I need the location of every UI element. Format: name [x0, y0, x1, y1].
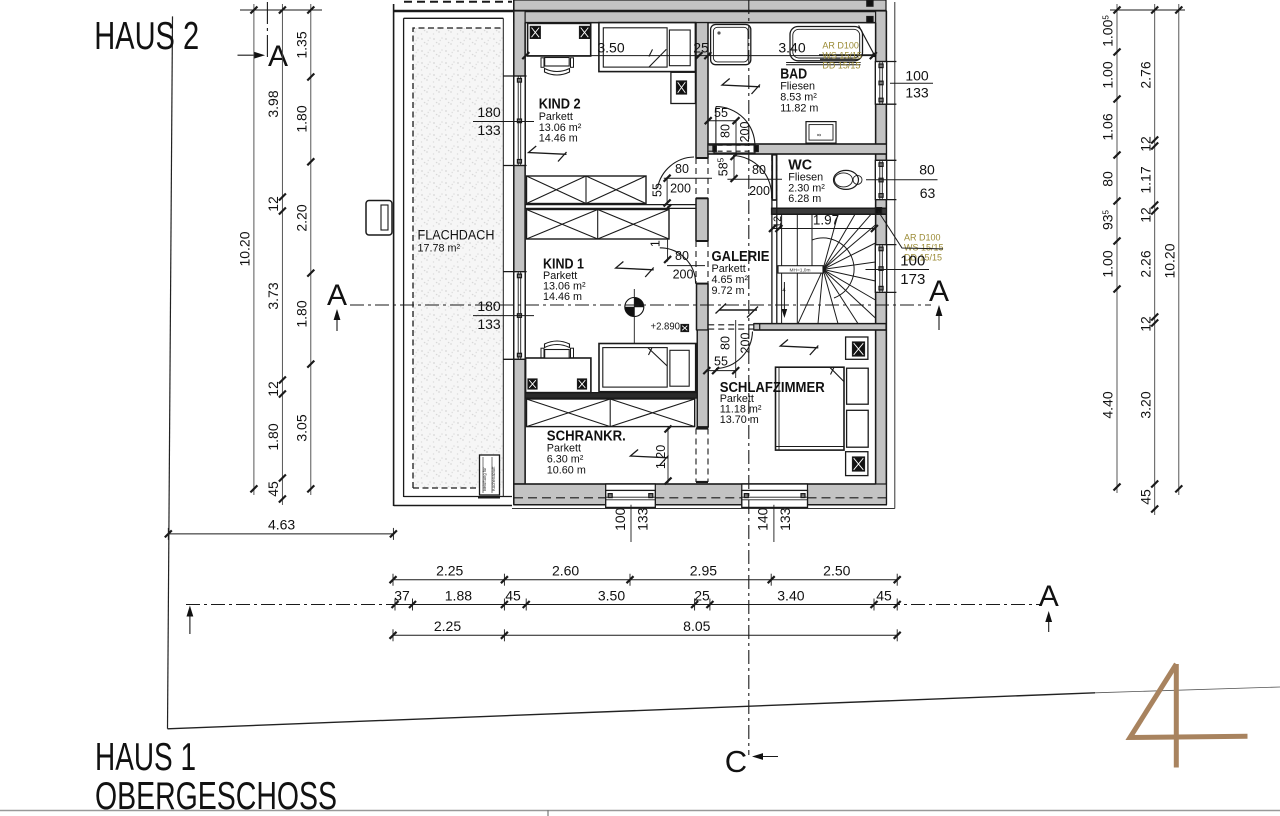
svg-text:180: 180 [477, 298, 501, 314]
svg-text:3.50: 3.50 [598, 587, 625, 603]
svg-text:HAUS 1: HAUS 1 [95, 736, 196, 779]
top crop edge lines [404, 1, 512, 3]
bed KIND2 [599, 23, 696, 72]
svg-text:45: 45 [876, 587, 892, 603]
bottom dim row 2 on section line [393, 604, 897, 606]
svg-text:3.40: 3.40 [777, 587, 804, 603]
svg-text:10.60 m: 10.60 m [547, 464, 586, 476]
window label 140/133 bottom [773, 505, 775, 542]
svg-text:80: 80 [1100, 171, 1116, 187]
cabinet SCHLAFZIMMER 1 [847, 368, 869, 404]
svg-text:14.46 m: 14.46 m [543, 291, 582, 303]
bottom dim row 1 [393, 579, 897, 581]
door arc KIND1 [660, 248, 696, 284]
open arrow KIND2 [529, 146, 567, 154]
svg-text:Parkett: Parkett [539, 111, 573, 123]
nightstand bottom SCHLAFZIMMER [846, 452, 868, 476]
svg-text:12: 12 [1137, 207, 1153, 223]
svg-text:Küchenabluft: Küchenabluft [491, 466, 496, 491]
wardrobe SCHRANKR [527, 399, 695, 427]
survey point circle [625, 298, 644, 317]
window WC 80/63 right wall [875, 160, 886, 199]
svg-text:8.05: 8.05 [683, 618, 710, 634]
bottom frame line [0, 810, 1280, 812]
window SCHRANKR 100/133 bottom wall [606, 484, 656, 505]
svg-text:133: 133 [477, 122, 501, 138]
svg-text:2.26: 2.26 [1137, 250, 1153, 277]
svg-text:12: 12 [772, 216, 784, 228]
logo numeral 4 [1130, 664, 1248, 738]
svg-text:3.50: 3.50 [597, 40, 624, 56]
svg-text:200: 200 [739, 333, 753, 354]
junction squares [867, 0, 873, 6]
svg-text:133: 133 [635, 507, 651, 531]
KIND1 door opening dashed jambs [695, 241, 697, 284]
svg-text:9.72 m: 9.72 m [712, 285, 745, 297]
right exterior wall [876, 11, 887, 505]
svg-text:12: 12 [1137, 136, 1153, 152]
nightstand top SCHLAFZIMMER [846, 337, 868, 359]
svg-text:45: 45 [1137, 489, 1153, 505]
svg-text:2.25: 2.25 [436, 563, 463, 579]
dim 4.63 [168, 533, 393, 535]
roof eave outline [894, 2, 896, 509]
terrain diagonal line [168, 693, 1096, 729]
svg-text:1.80: 1.80 [293, 300, 309, 327]
window KIND2 180/133 left wall [514, 76, 525, 166]
svg-text:A: A [268, 40, 288, 73]
svg-text:2.76: 2.76 [1137, 61, 1153, 88]
svg-text:55: 55 [714, 355, 728, 369]
svg-text:MH=1,0m: MH=1,0m [790, 268, 811, 274]
lower section line A [186, 604, 1040, 606]
window stair 100/173 right wall [875, 245, 886, 293]
galerie stair divider wall [771, 154, 773, 324]
svg-text:200: 200 [749, 184, 770, 198]
right chain 1 [1116, 4, 1118, 493]
flachdach outer edge lines [393, 4, 395, 506]
toilet WC [834, 170, 859, 189]
svg-text:2.20: 2.20 [293, 204, 309, 231]
section line C vertical [748, 0, 750, 755]
svg-text:A: A [1039, 580, 1059, 613]
window KIND1 180/133 left wall [514, 272, 525, 360]
svg-text:80: 80 [675, 162, 689, 176]
door dim KIND2 [664, 177, 712, 179]
svg-text:45: 45 [505, 587, 521, 603]
svg-text:45: 45 [265, 481, 281, 497]
stair winder treads fan [823, 214, 838, 269]
door arc KIND2 [658, 157, 695, 188]
left chain segments [281, 4, 283, 505]
SCHLAFZIMMER door opening dashed [708, 324, 754, 326]
svg-text:AR D100: AR D100 [904, 233, 941, 243]
wardrobe row KIND2 [527, 176, 647, 204]
svg-text:133: 133 [477, 316, 501, 332]
window label 100/133 bottom [630, 505, 632, 542]
svg-text:HAUS 2: HAUS 2 [94, 15, 199, 58]
door arc SCHLAFZIMMER [716, 332, 753, 369]
ventilation box bottom left [480, 455, 500, 495]
svg-text:55: 55 [714, 106, 728, 120]
corridor wall below KIND1 door [697, 284, 709, 330]
property boundary vertical [168, 16, 173, 728]
flachdach dashed inner boundary [413, 28, 503, 488]
svg-text:A: A [327, 279, 347, 312]
svg-text:8: 8 [817, 133, 823, 136]
KIND2 door opening dashed jambs [695, 158, 697, 198]
corridor wall between doors [696, 198, 708, 241]
bottom exterior wall [514, 484, 887, 505]
window SCHLAFZIMMER 140/133 bottom wall [742, 484, 808, 505]
svg-text:1.00: 1.00 [1100, 61, 1116, 88]
bottom wall hidden dashed line [514, 497, 606, 499]
stair dim 1.97 [772, 228, 876, 230]
svg-text:WS 15/15: WS 15/15 [904, 243, 944, 253]
svg-text:1.35: 1.35 [293, 31, 309, 58]
SCHLAFZIMMER left wall [697, 330, 708, 427]
svg-text:63: 63 [920, 185, 936, 201]
svg-text:173: 173 [900, 271, 925, 288]
svg-text:13.70 m: 13.70 m [720, 414, 759, 426]
svg-text:80: 80 [719, 336, 733, 350]
wall protrusion left [366, 201, 392, 236]
svg-text:4.40: 4.40 [1100, 391, 1116, 418]
stair direction arrow [783, 282, 785, 314]
shower diagonal and dot [859, 26, 875, 55]
chair KIND1 [545, 350, 570, 359]
svg-text:100: 100 [900, 252, 925, 269]
svg-text:FLACHDACH: FLACHDACH [418, 228, 495, 243]
svg-text:25: 25 [693, 40, 709, 56]
svg-text:2.25: 2.25 [434, 618, 461, 634]
svg-text:1.20: 1.20 [654, 445, 668, 469]
corridor wall top segment [696, 23, 708, 158]
chair KIND2 [545, 58, 570, 67]
svg-text:25: 25 [694, 587, 710, 603]
interior dim line top [526, 55, 874, 57]
nightstand KIND2 [671, 72, 696, 103]
svg-text:1.80: 1.80 [293, 105, 309, 132]
svg-text:10.20: 10.20 [1161, 243, 1177, 278]
svg-text:3.98: 3.98 [265, 90, 281, 117]
door dim SCHLAFZIMMER [707, 370, 736, 372]
wardrobe row KIND1 [527, 210, 670, 240]
svg-text:3.05: 3.05 [293, 414, 309, 441]
svg-text:12: 12 [265, 381, 281, 397]
window BAD 100/133 right wall [875, 62, 886, 105]
stair walk line arc [812, 238, 854, 298]
section line A-A horizontal [350, 304, 931, 306]
right chain 2 [1154, 4, 1156, 515]
BAD bottom wall [708, 144, 886, 154]
svg-text:55: 55 [651, 183, 665, 197]
svg-text:3.73: 3.73 [265, 282, 281, 309]
bathtub BAD left [711, 25, 751, 65]
open arrow KIND1 [616, 262, 654, 270]
door dim BAD [708, 120, 736, 122]
door BAD leaf and arc [715, 107, 717, 146]
SCHRANKR opening to SCHLAFZIMMER dashed [696, 427, 708, 429]
svg-text:37: 37 [394, 587, 410, 603]
svg-text:1.88: 1.88 [445, 587, 472, 603]
stair MH box [778, 266, 823, 273]
svg-text:1.97: 1.97 [813, 213, 839, 228]
svg-text:3.20: 3.20 [1137, 391, 1153, 418]
top exterior wall [514, 0, 886, 23]
desk KIND2 [528, 23, 591, 56]
svg-text:180: 180 [477, 104, 501, 120]
SCHLAFZIMMER top wall solid part [754, 324, 886, 330]
svg-text:2.95: 2.95 [690, 563, 717, 579]
svg-text:+2.890: +2.890 [651, 321, 681, 333]
galerie opening edge with break marks [719, 309, 757, 311]
svg-text:AR D100: AR D100 [822, 41, 859, 51]
double bed SCHLAFZIMMER [776, 367, 845, 450]
svg-text:80: 80 [919, 162, 935, 178]
svg-text:C: C [725, 744, 747, 779]
bed KIND1 [599, 344, 696, 392]
svg-text:A: A [929, 275, 949, 308]
svg-text:80: 80 [752, 163, 766, 177]
svg-text:200: 200 [738, 122, 752, 143]
svg-text:80: 80 [719, 124, 733, 138]
left chain connector top [240, 9, 322, 11]
open arrow SCHRANKR [630, 450, 668, 458]
svg-text:100: 100 [612, 507, 628, 531]
svg-text:1.06: 1.06 [1100, 113, 1116, 140]
stair straight treads [781, 214, 783, 265]
svg-text:80: 80 [675, 249, 689, 263]
svg-text:1.00: 1.00 [1100, 250, 1116, 277]
svg-text:12: 12 [1137, 316, 1153, 332]
svg-text:11.82 m: 11.82 m [780, 103, 818, 115]
svg-text:200: 200 [670, 182, 691, 196]
svg-text:Belüftung für: Belüftung für [482, 467, 487, 491]
svg-text:6.28 m: 6.28 m [788, 193, 821, 205]
flachdach stippled area [413, 28, 503, 488]
door dim WC [727, 178, 782, 180]
svg-text:133: 133 [777, 507, 793, 531]
svg-text:200: 200 [673, 268, 694, 282]
svg-text:1.17: 1.17 [1137, 166, 1153, 193]
open arrow SCHLAFZIMMER [780, 340, 818, 348]
desk KIND1 [526, 358, 591, 393]
svg-text:12: 12 [265, 196, 281, 212]
door arc WC [733, 156, 772, 199]
right chain 10.20 [1178, 4, 1180, 495]
right chain connector top [1110, 9, 1185, 11]
wall KIND1 SCHRANKR [525, 393, 698, 399]
svg-text:2.60: 2.60 [552, 563, 579, 579]
thin wall KIND2 KIND1 [525, 204, 696, 206]
bottom dim row 3 [393, 634, 897, 636]
svg-text:17.78 m²: 17.78 m² [418, 243, 461, 255]
svg-text:3.40: 3.40 [778, 40, 805, 56]
svg-text:DD 15/15: DD 15/15 [822, 61, 860, 71]
svg-text:2.50: 2.50 [823, 563, 850, 579]
WC bottom wall [772, 208, 887, 214]
svg-text:10.20: 10.20 [237, 231, 253, 266]
door dim KIND1 [667, 265, 705, 267]
open arrow BAD [722, 79, 760, 87]
bathtub BAD right [790, 27, 863, 61]
left chain 10.20 [253, 4, 255, 495]
svg-text:4.63: 4.63 [268, 517, 295, 533]
cabinet SCHLAFZIMMER 2 [847, 410, 869, 447]
section marker A top left [266, 2, 268, 60]
left exterior wall [514, 11, 525, 484]
radiator BAD [806, 122, 836, 144]
svg-text:100: 100 [905, 68, 929, 84]
left chain room segments [310, 4, 312, 495]
svg-text:140: 140 [755, 507, 771, 531]
svg-text:1.80: 1.80 [265, 423, 281, 450]
svg-text:14.46 m: 14.46 m [539, 133, 578, 145]
svg-text:133: 133 [905, 85, 929, 101]
